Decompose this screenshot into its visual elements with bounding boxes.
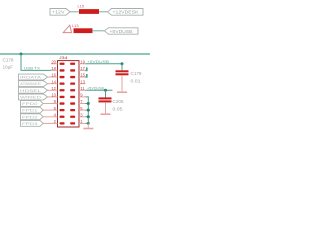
net flag ATAWAKE [19,81,52,87]
inductor L15 [78,5,100,14]
pin 17 lead [79,69,86,71]
pin 20 lead [51,63,58,65]
pin 5 dash [70,109,75,111]
svg-text:IRDATA: IRDATA [20,76,42,80]
svg-text:J34: J34 [59,55,69,60]
svg-text:15: 15 [80,73,85,78]
svg-text:11: 11 [80,86,85,91]
capacitor C178 label [3,58,15,70]
wire top net [0,53,150,55]
wire +5VDUSB pin 19 [86,63,123,65]
svg-text:FPD1: FPD1 [22,109,38,113]
svg-text:13: 13 [80,79,85,84]
pin 8 lead [51,103,58,105]
pin 19 lead [79,63,86,65]
svg-text:14: 14 [51,79,56,84]
svg-text:0.01: 0.01 [131,78,142,83]
svg-text:10µF: 10µF [3,64,14,69]
svg-text:L15: L15 [78,5,85,9]
svg-text:FPD2: FPD2 [22,115,38,119]
capacitor C179 [116,64,129,92]
svg-text:16: 16 [51,73,56,78]
junction [121,62,124,65]
pin 7 lead [79,103,86,105]
svg-text:10: 10 [51,93,56,98]
wire stub pin 7 [86,103,89,105]
junction [104,89,107,92]
svg-text:USB TX: USB TX [24,66,41,70]
pin 4 dash [60,116,65,118]
svg-text:WIRED: WIRED [20,95,42,99]
svg-text:+5VDUSB: +5VDUSB [87,60,110,64]
ground [101,113,111,115]
junction [87,122,90,125]
pin 2 lead [51,122,58,124]
junction [87,115,90,118]
connector J34 [58,55,80,127]
pin 11 lead [79,89,86,91]
wire to pin 18 [21,54,52,70]
svg-text:17: 17 [80,66,85,71]
pin 20 dash [60,63,65,65]
pin 18 lead [51,69,58,71]
svg-text:L13: L13 [72,24,79,28]
ground lead [87,123,89,127]
pin 14 lead [51,83,58,85]
svg-text:FPD3: FPD3 [22,122,38,126]
svg-text:C179: C179 [131,71,143,76]
supply flag +12V [50,9,70,16]
wire stub pin 5 [86,109,89,111]
pin 16 lead [51,76,58,78]
pin 18 dash [60,69,65,71]
wire stub pin 15 [86,74,87,77]
svg-text:19: 19 [80,60,85,65]
C179 labels [131,71,143,84]
net flag +12VDESK [108,9,144,16]
pin 15 lead [79,76,86,78]
pin 9 dash [70,96,75,98]
wire [92,30,105,32]
C205 labels [113,99,125,112]
junction [20,53,23,56]
net flag FPD0 [21,101,52,107]
net flag FPD3 [21,120,52,126]
ground [117,91,127,93]
pin 10 dash [60,96,65,98]
svg-text:0.05: 0.05 [113,107,124,112]
wire stub pin 3 [86,116,89,118]
net flag FPD1 [21,107,52,113]
net flag WIRED [19,94,52,100]
pin 13 lead [79,83,86,85]
inductor L13 [72,24,93,33]
svg-text:FPD0: FPD0 [22,102,38,106]
pin 9 lead [79,96,86,98]
svg-text:HDSEL: HDSEL [20,89,41,93]
wire [70,11,80,13]
wire stub pin 17 [86,67,87,70]
pin 4 lead [51,116,58,118]
svg-text:+5VDUSB: +5VDUSB [110,29,133,34]
pin 14 dash [60,83,65,85]
pin 10 lead [51,96,58,98]
pin 3 dash [70,116,75,118]
net flag FPD2 [21,114,52,120]
pin 2 dash [60,122,65,124]
pin 17 dash [70,69,75,71]
wire +5VDUSB pin 11 [86,89,113,91]
junction [87,102,90,105]
svg-text:C178: C178 [3,58,15,63]
junction [87,109,90,112]
net flag IRDATA [19,74,52,80]
svg-text:C205: C205 [113,99,125,104]
pin 11 dash [70,89,75,91]
ground [83,128,93,130]
pin 16 dash [60,76,65,78]
pin 7 dash [70,102,75,104]
svg-text:+12V: +12V [52,10,65,15]
svg-text:18: 18 [51,66,56,71]
svg-text:12: 12 [51,86,56,91]
pin 12 dash [60,89,65,91]
pin 6 lead [51,109,58,111]
svg-text:20: 20 [51,60,56,65]
supply arrow [63,25,71,32]
pin 8 dash [60,102,65,104]
pin 13 dash [70,83,75,85]
wire [99,11,108,13]
pin 12 lead [51,89,58,91]
net flag +5VDUSB [105,28,139,34]
pin 3 lead [79,116,86,118]
pin 15 dash [70,76,75,78]
wire gnd bus [86,97,89,124]
pin 1 lead [79,122,86,124]
svg-text:+12VDESK: +12VDESK [113,10,139,15]
svg-text:ATAWAKE: ATAWAKE [20,82,42,86]
pin 19 dash [70,63,75,65]
capacitor C205 [99,90,112,113]
pin 1 dash [70,122,75,124]
net flag HDSEL [19,87,52,93]
pin 6 dash [60,109,65,111]
pin 5 lead [79,109,86,111]
svg-text:+5VDUSB: +5VDUSB [87,86,105,90]
